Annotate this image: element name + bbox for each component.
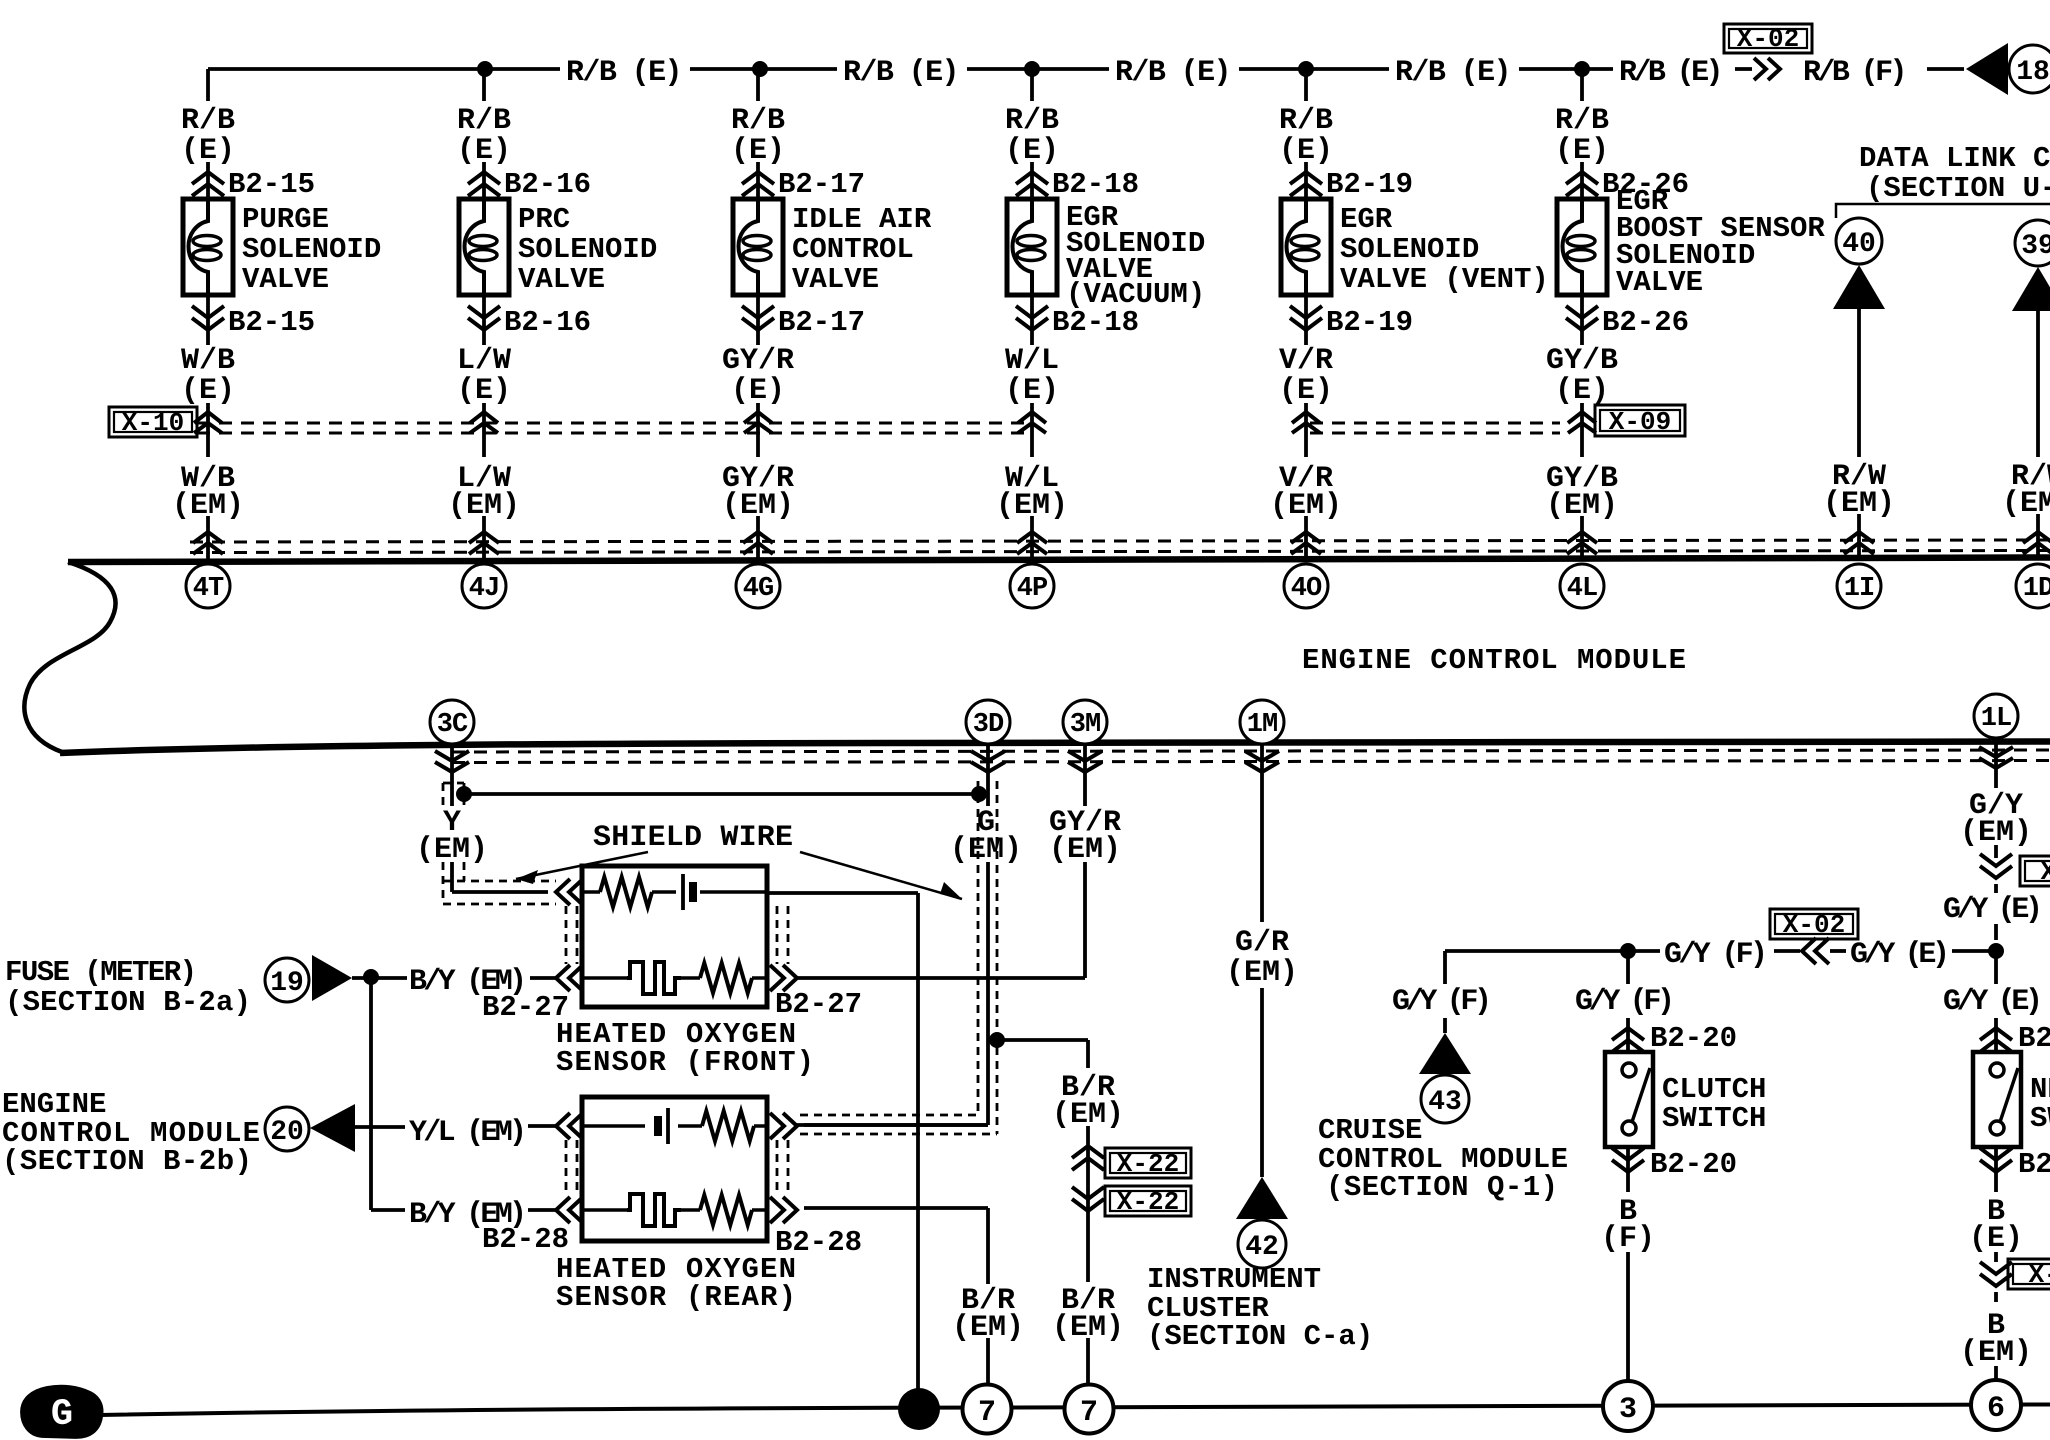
connector 3C	[435, 751, 469, 761]
svg-text:R/B (E): R/B (E)	[1115, 56, 1231, 90]
neutral switch	[1973, 1052, 2021, 1147]
wire R/B (E) drop B2-17	[756, 69, 760, 101]
page ref 40	[1836, 218, 1882, 264]
ground connector 3	[1603, 1381, 1653, 1431]
svg-text:R/B (E): R/B (E)	[843, 56, 959, 90]
svg-text:(E): (E)	[731, 134, 785, 168]
ECM pin 1D	[2016, 564, 2050, 608]
page ref 20	[265, 1107, 309, 1151]
connector B2-19 upper	[1290, 172, 1322, 184]
ECM pin 1I	[1837, 564, 1881, 608]
svg-text:(EM): (EM)	[950, 833, 1022, 867]
svg-text:W/L: W/L	[1005, 344, 1059, 378]
svg-text:G/Y (F): G/Y (F)	[1664, 938, 1768, 972]
page ref 42 triangle	[1236, 1177, 1288, 1219]
solenoid valve B2-18	[1007, 199, 1057, 295]
shield arrow left	[516, 852, 648, 879]
svg-text:(EM): (EM)	[416, 833, 488, 867]
wire B/R rear heater	[804, 1206, 988, 1210]
wire R/W from 40	[1857, 309, 1861, 457]
connector X row B2-16	[470, 412, 498, 423]
svg-text:B2-20: B2-20	[1650, 1148, 1737, 1181]
svg-text:R/B: R/B	[1555, 104, 1609, 138]
solenoid valve B2-17	[733, 199, 783, 295]
svg-text:(E): (E)	[181, 134, 235, 168]
svg-text:(EM): (EM)	[1052, 1311, 1124, 1345]
junction	[477, 61, 493, 77]
shield dashed rear sides	[565, 1140, 568, 1196]
svg-text:(EM): (EM)	[1226, 956, 1298, 990]
svg-text:(E): (E)	[457, 374, 511, 408]
connector 3M	[1068, 751, 1102, 761]
harness dashed X-10/X-09	[197, 422, 1028, 425]
wire W/B (EM)	[206, 516, 210, 559]
svg-text:(E): (E)	[1005, 374, 1059, 408]
svg-text:R/B: R/B	[181, 104, 235, 138]
wire Y/L	[355, 1125, 405, 1129]
svg-text:CONTROL: CONTROL	[792, 233, 914, 266]
wire B (E)	[1994, 1147, 1998, 1192]
connector X-2 inline	[1980, 1262, 2012, 1274]
ground symbol	[22, 1387, 102, 1437]
svg-text:X-22: X-22	[1117, 1149, 1179, 1179]
svg-text:SHIELD WIRE: SHIELD WIRE	[593, 821, 793, 855]
shield dashed 3D	[977, 781, 980, 1115]
wire L/W	[482, 403, 486, 457]
junction G/Y right	[1988, 943, 2004, 959]
svg-text:B2-19: B2-19	[1326, 168, 1413, 201]
svg-text:(E): (E)	[1555, 134, 1609, 168]
wire R/B (E) drop B2-19	[1304, 69, 1308, 101]
connector B2-26 lower	[1580, 295, 1584, 345]
page ref 18 circle	[2009, 45, 2050, 93]
connector X row B2-18	[1018, 412, 1046, 423]
shield arrow right	[800, 852, 962, 899]
svg-text:V/R: V/R	[1279, 344, 1333, 378]
shield drain wire	[464, 792, 979, 796]
svg-text:(EM): (EM)	[2002, 487, 2050, 521]
svg-text:X-22: X-22	[1117, 1187, 1179, 1217]
wire G/Y (E) upper	[1994, 884, 1998, 893]
wire GY/B	[1580, 403, 1584, 457]
svg-text:SOLENOID: SOLENOID	[518, 233, 657, 266]
junction	[1024, 61, 1040, 77]
ECM pin 3M	[1063, 700, 1107, 744]
heated oxygen sensor (front) box	[582, 866, 767, 1007]
svg-text:(E): (E)	[1555, 374, 1609, 408]
connector box X-10	[109, 407, 197, 437]
wire B/Y feed	[352, 976, 407, 980]
svg-text:ENGINE CONTROL MODULE: ENGINE CONTROL MODULE	[1302, 644, 1686, 677]
connector box X-2 right	[2008, 1259, 2050, 1289]
svg-text:1D: 1D	[2023, 574, 2050, 604]
wire G/Y (F) clutch	[1626, 951, 1630, 984]
svg-text:6: 6	[1987, 1392, 2005, 1426]
svg-text:B2-17: B2-17	[778, 306, 865, 339]
wire B (EM)	[1994, 1292, 1998, 1302]
ECM pin 4T	[186, 564, 230, 608]
svg-text:R/B: R/B	[457, 104, 511, 138]
svg-text:R/B: R/B	[731, 104, 785, 138]
wire W/L (EM)	[1030, 516, 1034, 559]
connector X-02 inline	[1754, 58, 1766, 80]
connector box X-22 upper	[1105, 1148, 1191, 1178]
connector X inline	[1980, 854, 2012, 866]
connector at bus B2-16	[469, 532, 499, 543]
svg-text:PURGE: PURGE	[242, 203, 329, 236]
svg-text:SOLENOID: SOLENOID	[242, 233, 381, 266]
wire R/B (E) drop B2-15	[206, 69, 210, 101]
svg-text:B2-16: B2-16	[504, 168, 591, 201]
wire B/Y rear	[528, 1208, 556, 1212]
svg-text:G/Y (E): G/Y (E)	[1850, 938, 1950, 972]
connector box X-09	[1595, 405, 1685, 436]
wire B/Y vertical	[369, 977, 373, 1210]
svg-text:X-10: X-10	[122, 408, 184, 438]
wire V/R	[1304, 403, 1308, 457]
svg-text:R/B: R/B	[1005, 104, 1059, 138]
ECM pin 1M	[1240, 700, 1284, 744]
svg-text:4L: 4L	[1567, 574, 1597, 604]
ECM pin 4L	[1560, 564, 1604, 608]
wire B/R to ground	[1086, 1338, 1090, 1386]
svg-text:B2-26: B2-26	[1602, 306, 1689, 339]
svg-text:SENSOR (FRONT): SENSOR (FRONT)	[556, 1046, 814, 1079]
connector at bus 1I	[1844, 532, 1874, 543]
svg-text:B2-: B2-	[2018, 1148, 2050, 1181]
svg-text:B2-16: B2-16	[504, 306, 591, 339]
wire GY/R	[756, 403, 760, 457]
svg-text:(F): (F)	[1601, 1222, 1655, 1256]
connector box X-02 lower	[1770, 909, 1858, 939]
wire G/R	[1260, 743, 1264, 922]
svg-text:X-09: X-09	[1609, 407, 1671, 437]
connector 3D	[971, 751, 1005, 761]
svg-text:18: 18	[2016, 57, 2050, 88]
svg-text:19: 19	[270, 968, 304, 999]
svg-text:7: 7	[978, 1396, 996, 1430]
svg-text:3: 3	[1619, 1393, 1637, 1427]
wire GY/R from 3M	[1083, 743, 1087, 806]
shield dashed Y lower	[442, 862, 445, 904]
wire sensor out	[767, 891, 918, 895]
shield dashed front sides	[565, 906, 568, 964]
svg-text:(SECTION Q-1): (SECTION Q-1)	[1326, 1171, 1558, 1204]
connector B2-16 lower	[482, 295, 486, 345]
connector B2-27 left	[556, 965, 570, 991]
svg-text:(SECTION B-2b): (SECTION B-2b)	[2, 1145, 252, 1178]
svg-text:R/B (E): R/B (E)	[566, 56, 682, 90]
connector B2-28 left	[556, 1197, 570, 1223]
page ref 39	[2015, 220, 2050, 266]
connector at bus B2-18	[1017, 532, 1047, 543]
svg-text:1L: 1L	[1981, 704, 2011, 734]
svg-text:B2-18: B2-18	[1052, 168, 1139, 201]
wire Y from 3C	[450, 744, 454, 806]
solenoid valve B2-26	[1557, 199, 1607, 295]
connector B2-27 top row	[556, 879, 570, 905]
connector B2-28 heater right	[770, 1197, 784, 1223]
svg-text:G/Y (F): G/Y (F)	[1392, 985, 1492, 1019]
connector 1M	[1245, 751, 1279, 761]
svg-text:20: 20	[270, 1117, 304, 1148]
ECM lower bus	[60, 742, 2050, 754]
svg-text:3D: 3D	[973, 710, 1004, 740]
ECM pin 4P	[1010, 564, 1054, 608]
connector X row B2-26	[1568, 412, 1596, 423]
ECM pin 4G	[736, 564, 780, 608]
svg-text:B/Y (EM): B/Y (EM)	[409, 1198, 527, 1232]
svg-text:(SECTION U-: (SECTION U-	[1866, 172, 2050, 205]
svg-text:GY/B: GY/B	[1546, 344, 1618, 378]
ground connector 6	[1971, 1380, 2021, 1430]
connector X row B2-17	[744, 412, 772, 423]
svg-text:EGR: EGR	[1340, 203, 1393, 236]
svg-text:(E): (E)	[731, 374, 785, 408]
svg-text:40: 40	[1842, 229, 1876, 260]
wire G from 3D	[986, 743, 990, 806]
page ref 43 triangle	[1419, 1033, 1471, 1074]
svg-text:R/B: R/B	[1279, 104, 1333, 138]
connector B2-20 upper	[1612, 1028, 1644, 1040]
svg-text:VALVE (VENT): VALVE (VENT)	[1340, 263, 1549, 296]
svg-text:SWITCH: SWITCH	[2030, 1102, 2050, 1135]
connector B2-19 lower	[1304, 295, 1308, 345]
svg-text:R/B (E): R/B (E)	[1395, 56, 1511, 90]
wire B/R left to ground	[986, 1338, 990, 1387]
svg-text:(EM): (EM)	[1960, 816, 2032, 850]
svg-text:(SECTION C-a): (SECTION C-a)	[1147, 1320, 1373, 1353]
svg-text:G/Y (F): G/Y (F)	[1575, 985, 1675, 1019]
harness dashed at ECM bus	[190, 540, 2050, 542]
svg-text:(E): (E)	[1005, 134, 1059, 168]
ground connector 7 left	[963, 1385, 1012, 1434]
solenoid valve B2-15	[183, 199, 233, 295]
svg-text:B2-20: B2-20	[1650, 1022, 1737, 1055]
wire W/B	[206, 403, 210, 457]
wire G/Y cruise	[1443, 951, 1447, 984]
connector B2 lower neutral	[1980, 1148, 2012, 1160]
connector B2-26 upper	[1566, 172, 1598, 184]
shield drain junction	[456, 786, 472, 802]
svg-text:X-02: X-02	[1737, 24, 1799, 54]
svg-text:X-02: X-02	[1783, 910, 1845, 940]
connector box X-22 lower	[1105, 1186, 1191, 1216]
svg-text:(EM): (EM)	[1823, 487, 1895, 521]
wire W/L	[1030, 403, 1034, 457]
page ref 18 triangle	[1966, 43, 2008, 95]
svg-text:(E): (E)	[181, 374, 235, 408]
svg-text:G: G	[51, 1394, 73, 1436]
svg-text:VALVE: VALVE	[242, 263, 329, 296]
connector B2-17 lower	[756, 295, 760, 345]
connector at bus B2-26	[1567, 532, 1597, 543]
svg-text:G/R: G/R	[1235, 926, 1289, 960]
front sensor element	[582, 890, 600, 894]
connector B2-18 lower	[1030, 295, 1034, 345]
wire B/R drain	[1086, 1126, 1090, 1282]
connector B2-15 lower	[206, 295, 210, 345]
wire R/B (E) drop B2-26	[1580, 69, 1584, 101]
connector B2-20 lower	[1612, 1148, 1644, 1160]
svg-text:X-0: X-0	[2041, 857, 2050, 887]
bracket data link	[1836, 204, 2050, 218]
ground bus	[100, 1405, 2050, 1416]
shield drain to B/R	[997, 1038, 1088, 1042]
svg-text:B2-27: B2-27	[775, 988, 862, 1021]
svg-text:G/Y (E): G/Y (E)	[1943, 893, 2043, 927]
page ref 20 triangle	[310, 1104, 355, 1152]
rear heater	[582, 1208, 627, 1212]
shield drain junction lower	[989, 1032, 1005, 1048]
svg-text:(E): (E)	[1969, 1222, 2023, 1256]
wire G/Y (EM)	[1994, 738, 1998, 788]
wire G/Y (E) lower	[1994, 951, 1998, 984]
ECM bus S-curve	[24, 562, 115, 752]
page ref 43 circle	[1421, 1075, 1469, 1123]
svg-text:L/W: L/W	[457, 344, 511, 378]
svg-text:1M: 1M	[1247, 710, 1277, 740]
svg-text:SWITCH: SWITCH	[1662, 1102, 1766, 1135]
junction	[752, 61, 768, 77]
page ref 42 circle	[1238, 1220, 1286, 1268]
connector X-02 inline lower	[1802, 938, 1816, 964]
solenoid valve B2-19	[1281, 199, 1331, 295]
wire L/W (EM)	[482, 516, 486, 559]
ECM pin 4O	[1284, 564, 1328, 608]
ECM pin 3C	[430, 700, 474, 744]
connector B2-17 upper	[742, 172, 774, 184]
junction G/Y clutch	[1620, 943, 1636, 959]
connector B2-16 upper	[468, 172, 500, 184]
svg-text:(E): (E)	[1279, 134, 1333, 168]
wire GY/R (EM)	[756, 516, 760, 559]
rear sensor element	[582, 1124, 645, 1128]
harness dashed lower	[452, 750, 2050, 752]
wire R/B (E) drop B2-18	[1030, 69, 1034, 101]
svg-text:DATA LINK C: DATA LINK C	[1859, 142, 2050, 175]
connector B2-18 upper	[1016, 172, 1048, 184]
ECM pin 3D	[966, 700, 1010, 744]
wire B/Y to sensor	[530, 976, 556, 980]
svg-text:(EM): (EM)	[1049, 833, 1121, 867]
connector B2 upper neutral	[1980, 1028, 2012, 1040]
svg-text:X-2: X-2	[2029, 1260, 2050, 1290]
svg-text:VALVE: VALVE	[1616, 266, 1703, 299]
svg-text:G/Y (E): G/Y (E)	[1943, 985, 2043, 1019]
connector at bus 1D	[2023, 532, 2050, 543]
svg-text:3C: 3C	[437, 710, 468, 740]
connector B2-27 right	[770, 965, 784, 991]
connector X-22 lower	[1072, 1187, 1104, 1199]
svg-text:4G: 4G	[743, 574, 773, 604]
ground connector 7 right	[1065, 1385, 1114, 1434]
wire G lower	[986, 862, 990, 1125]
ECM pin 4J	[462, 564, 506, 608]
svg-text:3M: 3M	[1070, 710, 1100, 740]
connector at bus B2-19	[1291, 532, 1321, 543]
wire V/R (EM)	[1304, 516, 1308, 559]
connector B2-28 right	[770, 1113, 784, 1139]
connector at bus B2-15	[193, 532, 223, 543]
connector box X right	[2020, 856, 2050, 886]
junction	[1298, 61, 1314, 77]
svg-text:W/B: W/B	[181, 344, 235, 378]
page ref 19 triangle	[312, 955, 352, 1001]
ground junction	[898, 1388, 940, 1430]
connector rear left top	[556, 1113, 570, 1139]
svg-text:4T: 4T	[193, 574, 224, 604]
svg-text:Y/L (EM): Y/L (EM)	[409, 1116, 527, 1150]
svg-text:B2-17: B2-17	[778, 168, 865, 201]
wire GY/B (EM)	[1580, 516, 1584, 559]
svg-text:(E): (E)	[1279, 374, 1333, 408]
svg-text:B2-18: B2-18	[1052, 306, 1139, 339]
svg-text:B2-19: B2-19	[1326, 306, 1413, 339]
svg-text:IDLE AIR: IDLE AIR	[792, 203, 932, 236]
svg-text:R/B (E): R/B (E)	[1619, 56, 1723, 90]
wire R/B (E) top feed	[208, 67, 560, 71]
svg-text:PRC: PRC	[518, 203, 570, 236]
page ref 19	[265, 958, 309, 1002]
svg-text:FUSE (METER): FUSE (METER)	[5, 956, 197, 989]
svg-text:SOLENOID: SOLENOID	[1340, 233, 1479, 266]
svg-text:4J: 4J	[469, 574, 499, 604]
front heater	[582, 976, 627, 980]
svg-text:(E): (E)	[457, 134, 511, 168]
clutch switch	[1605, 1052, 1653, 1147]
ECM pin 1L	[1974, 694, 2018, 738]
ENGINE CONTROL MODULE bus	[68, 558, 2050, 563]
connector X row B2-19	[1292, 412, 1320, 423]
connector B2-15 upper	[192, 172, 224, 184]
solenoid valve B2-16	[459, 199, 509, 295]
svg-text:4O: 4O	[1291, 574, 1322, 604]
svg-text:1I: 1I	[1844, 574, 1874, 604]
connector X row B2-15	[194, 412, 222, 423]
shield dashed 3C box	[443, 782, 464, 785]
connector at bus B2-17	[743, 532, 773, 543]
wire GY/R lower	[1083, 862, 1087, 978]
connector X-22 upper	[1072, 1146, 1104, 1158]
svg-text:7: 7	[1080, 1396, 1098, 1430]
svg-text:GY/R: GY/R	[722, 344, 794, 378]
wire G/Y horizontal	[1445, 949, 1628, 953]
wire R/W from 39	[2036, 311, 2040, 457]
wire rear sensor out	[804, 1123, 988, 1127]
heated oxygen sensor (rear) box	[582, 1097, 767, 1241]
svg-text:B2-15: B2-15	[228, 306, 315, 339]
svg-text:4P: 4P	[1017, 574, 1048, 604]
svg-text:39: 39	[2021, 231, 2050, 262]
svg-text:43: 43	[1428, 1087, 1462, 1118]
svg-text:B2-15: B2-15	[228, 168, 315, 201]
svg-text:42: 42	[1245, 1232, 1279, 1263]
svg-text:(SECTION B-2a): (SECTION B-2a)	[5, 986, 251, 1019]
connector 1L	[1979, 747, 2013, 757]
svg-text:VALVE: VALVE	[518, 263, 605, 296]
wire B (F)	[1626, 1147, 1630, 1192]
connector box X-02	[1724, 24, 1812, 53]
wire Y lower	[450, 862, 454, 892]
svg-text:R/B (F): R/B (F)	[1803, 56, 1907, 90]
wire R/B (E) drop B2-16	[482, 69, 486, 101]
junction	[1574, 61, 1590, 77]
svg-text:(EM): (EM)	[1960, 1336, 2032, 1370]
junction B/Y	[363, 969, 379, 985]
svg-text:VALVE: VALVE	[792, 263, 879, 296]
shield drain junction 3D	[971, 786, 987, 802]
